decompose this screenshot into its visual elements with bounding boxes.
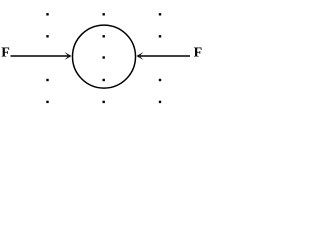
svg-text:F: F [1,45,10,60]
svg-text:F: F [194,45,203,60]
left force arrow F [11,52,72,60]
circle body [73,25,136,88]
right force arrow F [136,52,190,60]
grid dots [46,13,161,103]
